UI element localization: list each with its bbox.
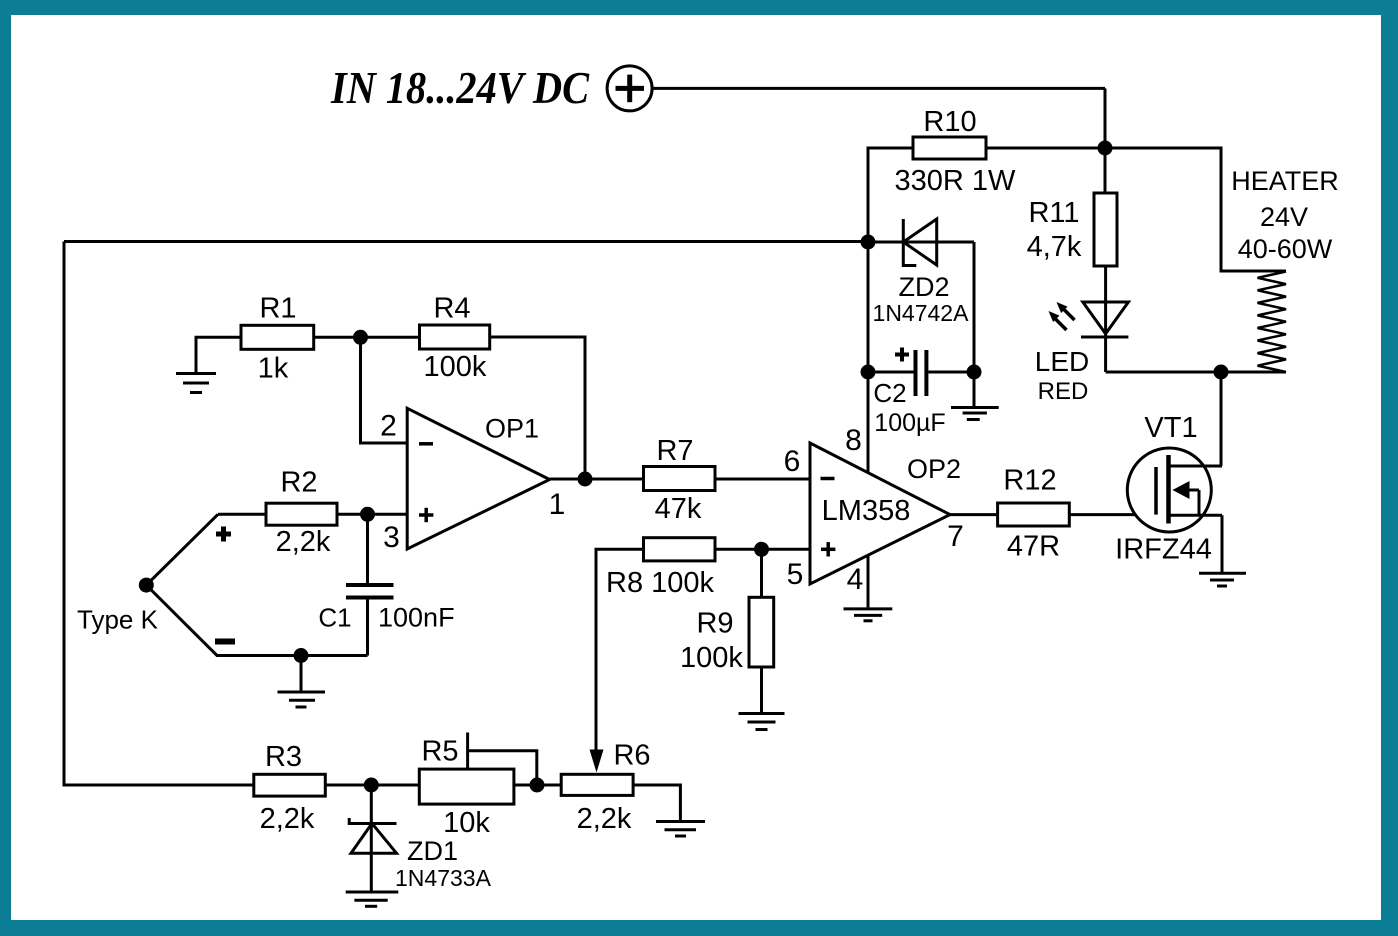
svg-text:Type K: Type K bbox=[77, 605, 159, 635]
svg-text:2,2k: 2,2k bbox=[276, 526, 331, 558]
node R8/R9 junction bbox=[754, 542, 769, 557]
wire thermocouple minus leg bbox=[146, 585, 367, 655]
wire heater bottom bbox=[1221, 371, 1286, 374]
svg-text:R4: R4 bbox=[433, 293, 470, 325]
svg-text:330R 1W: 330R 1W bbox=[895, 165, 1017, 197]
wire ZD2 cathode lead to right drop bbox=[973, 242, 976, 372]
wire down to VT1 drain bbox=[1220, 372, 1223, 466]
capacitor C2 bbox=[916, 350, 927, 396]
svg-text:IRFZ44: IRFZ44 bbox=[1115, 534, 1212, 566]
svg-text:100k: 100k bbox=[424, 351, 487, 383]
svg-text:100µF: 100µF bbox=[874, 409, 945, 437]
svg-text:OP1: OP1 bbox=[485, 414, 539, 444]
svg-text:LM358: LM358 bbox=[822, 495, 911, 527]
wire R1 right to R4 left bbox=[314, 336, 420, 339]
wire to heater top bbox=[1105, 148, 1286, 271]
LED emission arrows bbox=[1049, 302, 1075, 330]
ground at R6 bbox=[656, 822, 705, 837]
wire OP2 pin4 to ground bbox=[867, 555, 870, 607]
ground at OP2 pin4 bbox=[844, 609, 893, 621]
svg-text:8: 8 bbox=[845, 424, 862, 457]
svg-text:IN 18...24V DC: IN 18...24V DC bbox=[330, 62, 590, 113]
svg-text:100k: 100k bbox=[680, 642, 743, 674]
ground at C1 bbox=[278, 656, 326, 708]
LED D1 bbox=[1081, 302, 1128, 337]
wire long top feedback rail bbox=[64, 240, 868, 243]
wire R5 wiper to right terminal bbox=[468, 733, 537, 786]
svg-text:HEATER: HEATER bbox=[1231, 166, 1339, 196]
wire C1 bottom lead bbox=[366, 598, 369, 656]
resistor R9 bbox=[749, 597, 774, 667]
thermocouple minus mark bbox=[215, 639, 235, 645]
wire thermocouple plus leg bbox=[146, 514, 218, 585]
wire OP1 output bbox=[550, 478, 644, 481]
svg-text:VT1: VT1 bbox=[1144, 412, 1197, 444]
resistor R2 bbox=[266, 503, 337, 525]
svg-text:47k: 47k bbox=[655, 493, 702, 525]
wire R8 left lead down to R6 wiper arrow bbox=[596, 549, 644, 751]
resistor R8 bbox=[644, 538, 716, 561]
svg-text:3: 3 bbox=[383, 521, 400, 554]
wire down to R10 rail bbox=[1104, 88, 1107, 148]
svg-text:10k: 10k bbox=[443, 807, 490, 839]
wire ZD2 anode lead bbox=[868, 241, 974, 244]
wire R3 right to R5 left bbox=[325, 784, 419, 787]
svg-text:OP2: OP2 bbox=[907, 454, 961, 484]
svg-text:R8 100k: R8 100k bbox=[606, 567, 715, 599]
node C2 right junction bbox=[967, 365, 982, 380]
potentiometer R5 bbox=[419, 769, 514, 804]
svg-text:2,2k: 2,2k bbox=[260, 803, 315, 835]
svg-text:R1: R1 bbox=[259, 293, 296, 325]
node heater/LED/drain junction bbox=[1214, 365, 1229, 380]
zener diode ZD1 bbox=[349, 785, 396, 891]
svg-text:2,2k: 2,2k bbox=[577, 803, 632, 835]
resistor R12 bbox=[998, 503, 1070, 526]
wire junction down to C1 bbox=[366, 514, 369, 585]
svg-text:1k: 1k bbox=[258, 353, 289, 385]
svg-text:1: 1 bbox=[549, 488, 566, 521]
svg-text:4: 4 bbox=[847, 563, 864, 596]
svg-text:47R: 47R bbox=[1007, 531, 1060, 563]
resistor R7 bbox=[644, 467, 716, 491]
wire R1 left lead bbox=[196, 337, 241, 372]
wire OP2 output bbox=[950, 513, 998, 516]
zener diode ZD2 bbox=[903, 219, 936, 266]
op-amp OP1 bbox=[407, 408, 549, 549]
node R3/ZD1/R5 junction bbox=[364, 778, 379, 793]
node R2/C1 junction bbox=[360, 507, 375, 522]
svg-text:R10: R10 bbox=[923, 106, 976, 138]
svg-text:6: 6 bbox=[784, 445, 801, 478]
resistor R3 bbox=[254, 774, 325, 796]
wire R7 right to OP2 inverting input bbox=[715, 478, 810, 481]
svg-text:1N4742A: 1N4742A bbox=[873, 300, 970, 326]
node ZD2 left junction bbox=[861, 235, 876, 250]
svg-text:100nF: 100nF bbox=[378, 603, 455, 633]
wire R4 right lead down to OP1 output bbox=[490, 337, 585, 479]
wire R12 right to VT1 gate bbox=[1069, 513, 1156, 516]
wire R10 right lead bbox=[986, 147, 1105, 150]
resistor R1 bbox=[241, 325, 314, 349]
svg-text:ZD2: ZD2 bbox=[898, 272, 949, 302]
wire LED cathode down and right to drain node bbox=[1106, 371, 1221, 374]
resistor R10 bbox=[913, 137, 986, 159]
op-amp OP2 bbox=[810, 443, 950, 584]
wire R10 left lead and down-drop to ZD2 rail bbox=[868, 148, 913, 473]
svg-text:40-60W: 40-60W bbox=[1238, 234, 1333, 264]
wire C2 right lead bbox=[928, 371, 974, 374]
capacitor C1 bbox=[346, 585, 394, 598]
ground at C2 bbox=[951, 372, 999, 420]
wire from plus terminal to top right bbox=[653, 87, 1106, 90]
svg-text:R6: R6 bbox=[613, 740, 650, 772]
wire R6 right to ground bbox=[633, 785, 680, 820]
C2 polarity plus bbox=[895, 348, 909, 362]
OP2 plus sign bbox=[821, 542, 835, 556]
node C2 left junction bbox=[861, 365, 876, 380]
wire R2 left lead bbox=[218, 513, 266, 516]
svg-text:R7: R7 bbox=[656, 435, 693, 467]
resistor R11 bbox=[1094, 193, 1117, 266]
heater element zigzag bbox=[1258, 272, 1287, 373]
plus supply terminal bbox=[607, 66, 652, 111]
svg-text:1N4733A: 1N4733A bbox=[395, 865, 492, 891]
svg-text:R11: R11 bbox=[1028, 197, 1079, 229]
node thermocouple Type K bbox=[139, 578, 154, 593]
svg-text:R3: R3 bbox=[265, 741, 302, 773]
wire R5 right to R6 left bbox=[514, 784, 561, 787]
ground at ZD1 bbox=[346, 892, 399, 906]
OP1 plus sign bbox=[419, 508, 433, 522]
wire R2 right to OP1 plus input bbox=[337, 513, 407, 516]
node R10/R11 junction bbox=[1098, 141, 1113, 156]
svg-text:C2: C2 bbox=[873, 378, 906, 408]
node R1/R4 junction bbox=[353, 330, 368, 345]
transistor VT1 bbox=[1127, 448, 1222, 532]
thermocouple plus mark bbox=[216, 527, 231, 542]
svg-text:R5: R5 bbox=[421, 736, 458, 768]
wire C2 left lead bbox=[868, 371, 914, 374]
potentiometer R6 bbox=[561, 774, 633, 795]
svg-text:C1: C1 bbox=[318, 603, 351, 633]
svg-text:R9: R9 bbox=[696, 608, 733, 640]
OP1 minus sign bbox=[419, 442, 433, 446]
svg-text:5: 5 bbox=[787, 558, 804, 591]
svg-text:4,7k: 4,7k bbox=[1027, 231, 1082, 263]
wire R8 right to OP2 plus input bbox=[715, 548, 810, 551]
svg-text:2: 2 bbox=[380, 410, 397, 443]
OP2 minus sign bbox=[821, 477, 835, 481]
svg-text:ZD1: ZD1 bbox=[407, 836, 458, 866]
wire R11 top lead bbox=[1104, 148, 1107, 193]
ground at R9 bbox=[739, 667, 785, 730]
svg-text:24V: 24V bbox=[1260, 202, 1308, 232]
svg-text:7: 7 bbox=[947, 520, 964, 553]
svg-text:LED: LED bbox=[1035, 346, 1089, 377]
wire R9 top lead bbox=[760, 549, 763, 597]
wire junction down to OP1 inverting input bbox=[361, 337, 408, 443]
ground at R1 bbox=[176, 374, 216, 393]
svg-text:R2: R2 bbox=[280, 467, 317, 499]
wire R11 bottom lead bbox=[1104, 266, 1107, 372]
node R5/R6 junction bbox=[530, 778, 545, 793]
resistor R4 bbox=[420, 325, 490, 349]
svg-text:R12: R12 bbox=[1003, 465, 1056, 497]
node OP1 output junction bbox=[578, 472, 593, 487]
ground at VT1 source bbox=[1199, 573, 1246, 586]
svg-text:RED: RED bbox=[1038, 378, 1089, 405]
wire left feedback rail down to R3 bbox=[64, 242, 254, 786]
node C1 ground junction bbox=[294, 648, 309, 663]
wire VT1 source to ground bbox=[1221, 515, 1224, 572]
R6 wiper arrowhead bbox=[590, 750, 604, 773]
